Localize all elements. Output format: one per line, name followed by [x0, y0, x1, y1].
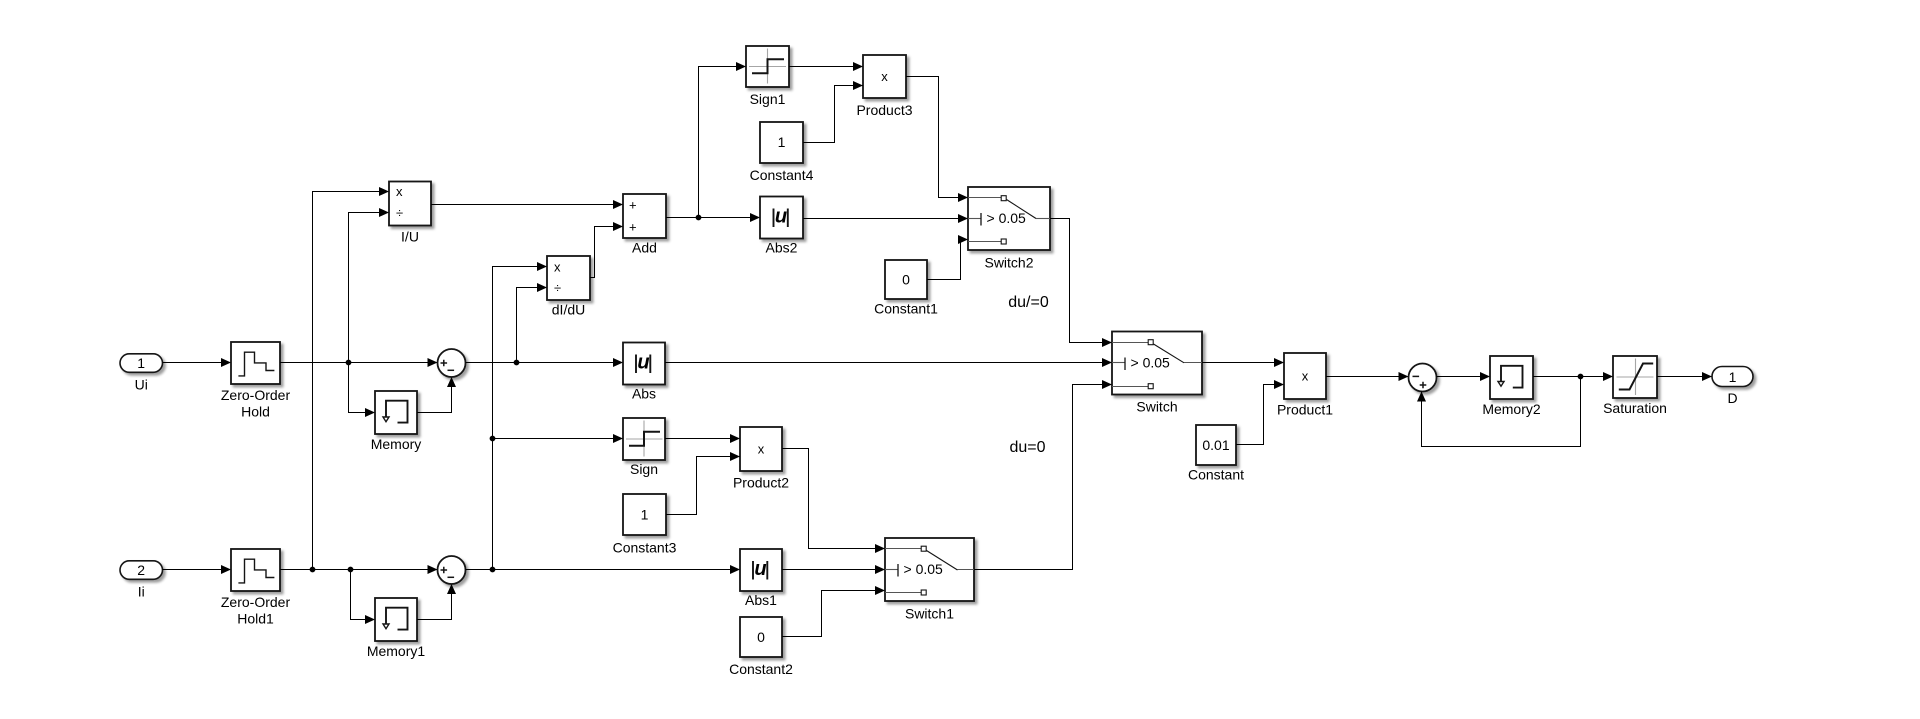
wire Switch2 to Switch input1 — [1050, 219, 1112, 343]
svg-text:du=0: du=0 — [1009, 439, 1045, 456]
svg-text:1: 1 — [1729, 369, 1737, 385]
block Abs1 — [740, 549, 782, 608]
svg-text:u: u — [637, 351, 649, 373]
svg-text:x: x — [554, 260, 561, 275]
svg-text:Abs1: Abs1 — [745, 592, 777, 608]
svg-text:I/U: I/U — [401, 229, 419, 245]
wire Zero-Order Hold to Sum — [280, 362, 438, 364]
svg-text:÷: ÷ — [396, 206, 403, 221]
svg-text:÷: ÷ — [554, 281, 561, 296]
wire Saturation to outport D — [1657, 376, 1712, 378]
svg-text:D: D — [1727, 390, 1737, 406]
svg-text:0: 0 — [757, 629, 765, 645]
wire Product3 to Switch2 input1 — [906, 77, 968, 198]
wire Constant2 to Switch1 input3 — [782, 591, 885, 637]
sum U (dU) — [438, 349, 466, 377]
block Switch — [1112, 332, 1202, 415]
wire Ui branch down to Memory — [349, 363, 376, 413]
wire Sum dU to Abs — [466, 362, 624, 364]
wire Ii to Zero-Order Hold1 — [163, 569, 232, 571]
block Constant1 — [874, 260, 938, 317]
wire Switch to Product1 input1 — [1202, 362, 1284, 364]
svg-text:1: 1 — [778, 134, 786, 150]
node junction dU branch — [514, 360, 520, 366]
block Zero-Order Hold — [221, 342, 291, 420]
block Sign1 — [746, 46, 789, 107]
block Abs2 — [760, 197, 803, 256]
svg-text:Constant1: Constant1 — [874, 301, 938, 317]
wire Ui to Zero-Order Hold — [163, 362, 232, 364]
svg-text:Constant2: Constant2 — [729, 661, 793, 677]
block Product3 — [856, 55, 912, 118]
wire Sum dI to Abs1 — [466, 569, 741, 571]
wire feedback to Sum2 plus input — [1422, 377, 1581, 447]
wire dU branch up to dI/dU divide input — [517, 288, 548, 363]
svg-text:Abs2: Abs2 — [766, 240, 798, 256]
block Constant4 — [750, 122, 814, 183]
inport 1 Ui — [120, 354, 163, 393]
svg-text:Switch1: Switch1 — [905, 606, 954, 622]
inport 2 Ii — [120, 561, 163, 600]
wire Zero-Order Hold1 to Sum1 — [280, 569, 438, 571]
block Saturation — [1603, 356, 1667, 416]
wire Ui branch up to I/U divide input — [349, 213, 390, 363]
wire I/U to Add input1 — [431, 204, 623, 206]
svg-text:Hold: Hold — [241, 404, 270, 420]
wire Memory1 to Sum1 minus input — [417, 584, 452, 620]
svg-text:Sign1: Sign1 — [750, 91, 786, 107]
block Abs — [623, 343, 665, 402]
wire Abs to Switch input2 — [665, 362, 1112, 364]
svg-text:+: + — [629, 220, 637, 235]
wire Sign to Product2 input1 — [665, 438, 740, 440]
svg-text:> 0.05: > 0.05 — [1131, 355, 1171, 371]
svg-text:1: 1 — [137, 355, 145, 371]
svg-text:> 0.05: > 0.05 — [987, 210, 1027, 226]
svg-text:2: 2 — [137, 562, 145, 578]
svg-text:u: u — [775, 205, 787, 227]
wire Constant4 to Product3 input2 — [803, 86, 863, 143]
block Memory — [371, 391, 422, 452]
svg-text:Add: Add — [632, 240, 657, 256]
block Memory1 — [367, 598, 426, 659]
block I/U product — [389, 182, 431, 245]
wire Product1 to Sum2 — [1326, 376, 1409, 378]
block Switch1 — [885, 538, 974, 622]
wire Sum2 to Memory2 — [1437, 376, 1491, 378]
svg-text:Product3: Product3 — [856, 102, 912, 118]
block Constant2 — [729, 617, 793, 677]
wire dI branch to Sign — [493, 438, 624, 440]
node junction Ii to I/U — [310, 567, 316, 573]
svg-text:Memory2: Memory2 — [1482, 401, 1541, 417]
svg-text:Ii: Ii — [138, 584, 145, 600]
block Memory2 — [1482, 356, 1541, 417]
block Zero-Order Hold1 — [221, 549, 291, 627]
block Constant 0.01 — [1188, 425, 1244, 483]
svg-text:Constant4: Constant4 — [750, 167, 814, 183]
svg-text:Sign: Sign — [630, 461, 658, 477]
svg-text:u: u — [754, 558, 766, 580]
block Constant3 — [613, 494, 677, 556]
wire Sign1 to Product3 — [789, 66, 863, 68]
block Switch2 — [968, 187, 1050, 271]
svg-text:dI/dU: dI/dU — [552, 302, 585, 318]
wire dI branch up to dI/dU x input — [493, 267, 548, 570]
svg-text:x: x — [881, 69, 888, 84]
svg-text:> 0.05: > 0.05 — [904, 561, 944, 577]
svg-text:0.01: 0.01 — [1202, 437, 1229, 453]
svg-text:Constant3: Constant3 — [613, 540, 677, 556]
svg-text:x: x — [396, 184, 403, 199]
wire Abs1 to Switch1 input2 — [782, 569, 885, 571]
svg-text:Hold1: Hold1 — [237, 611, 274, 627]
wire Switch1 to Switch input3 — [974, 385, 1112, 570]
node junction feedback — [1578, 374, 1584, 380]
wire Memory2 to Saturation — [1533, 376, 1613, 378]
svg-text:Saturation: Saturation — [1603, 400, 1667, 416]
wire Abs2 to Switch2 input2 — [803, 218, 968, 220]
svg-text:Ui: Ui — [135, 377, 148, 393]
svg-text:Product2: Product2 — [733, 475, 789, 491]
wire Constant to Product1 input2 — [1236, 385, 1284, 445]
svg-text:Zero-Order: Zero-Order — [221, 594, 291, 610]
svg-text:Zero-Order: Zero-Order — [221, 387, 291, 403]
svg-text:Memory: Memory — [371, 436, 422, 452]
svg-text:x: x — [758, 442, 765, 457]
block dI/dU product — [547, 256, 590, 318]
node junction dI branch — [490, 567, 496, 573]
wire Add branch up to Sign1 — [699, 67, 747, 218]
block Product2 — [733, 427, 789, 491]
svg-text:1: 1 — [641, 507, 649, 523]
node junction Ii to Memory1 — [348, 567, 354, 573]
svg-text:Memory1: Memory1 — [367, 643, 426, 659]
wire Memory to Sum minus input — [417, 377, 452, 413]
svg-text:Constant: Constant — [1188, 467, 1244, 483]
svg-text:Abs: Abs — [632, 386, 656, 402]
wire Ii branch down to Memory1 — [351, 570, 376, 620]
node junction on Ui line — [346, 360, 352, 366]
svg-text:du/=0: du/=0 — [1008, 294, 1049, 311]
block Sign — [623, 418, 665, 477]
svg-text:0: 0 — [902, 272, 910, 288]
block Product1 — [1277, 353, 1333, 418]
svg-text:Product1: Product1 — [1277, 402, 1333, 418]
wire Add to Abs2 — [666, 217, 760, 219]
wire Constant3 to Product2 input2 — [666, 457, 740, 515]
svg-text:Switch: Switch — [1136, 399, 1177, 415]
sum I (dI) — [438, 556, 466, 584]
outport 1 D — [1712, 367, 1753, 407]
svg-text:x: x — [1302, 369, 1309, 384]
node junction Add output — [696, 215, 702, 221]
wire dI/dU to Add input2 — [590, 227, 623, 278]
block Add — [623, 194, 666, 256]
node junction dI to Sign — [490, 436, 496, 442]
wire Product2 to Switch1 input1 — [782, 449, 885, 549]
svg-text:+: + — [629, 198, 637, 213]
wire Ii branch up to I/U x input — [313, 192, 390, 570]
svg-text:Switch2: Switch2 — [984, 255, 1033, 271]
sum output D — [1409, 364, 1437, 392]
wire Constant1 to Switch2 input3 — [927, 240, 968, 280]
